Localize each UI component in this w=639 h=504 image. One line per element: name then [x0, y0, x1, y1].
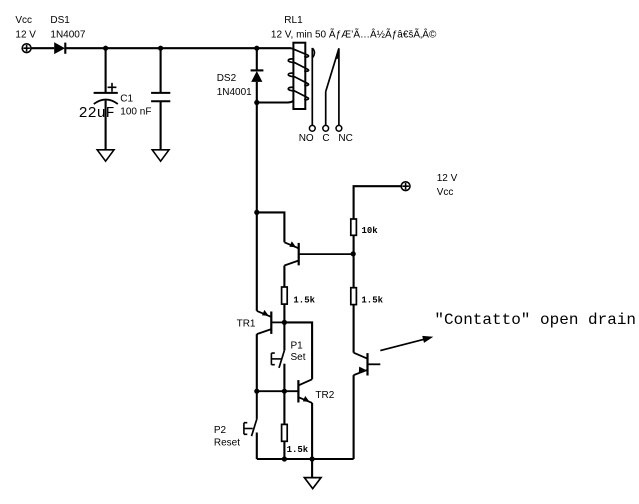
- svg-text:NC: NC: [338, 133, 352, 144]
- svg-text:12 V, min 50 ÃƒÆ’Ã…Â½Ãƒâ€šÃ‚Â©: 12 V, min 50 ÃƒÆ’Ã…Â½Ãƒâ€šÃ‚Â©: [271, 27, 437, 40]
- wire top rail: [65, 47, 291, 49]
- svg-text:Vcc: Vcc: [437, 187, 454, 198]
- svg-text:100 nF: 100 nF: [120, 106, 151, 117]
- wire DS2 lower lead: [256, 82, 258, 103]
- junction DS2 bottom: [254, 100, 259, 105]
- wire Q4 emitter down: [353, 375, 355, 459]
- ground under C1: [97, 150, 114, 161]
- arrow TR1 emitter: [262, 310, 269, 316]
- wire Q3 collector to R4: [283, 266, 285, 288]
- diode DS2: [251, 70, 264, 82]
- arrow TR2 emitter: [303, 396, 310, 402]
- relay contact C line: [325, 92, 327, 126]
- transistor Q3 (upper PNP): [284, 242, 353, 265]
- wire DS2 upper lead: [256, 48, 258, 70]
- svg-text:NO: NO: [299, 133, 314, 144]
- terminal NO: [309, 125, 315, 131]
- svg-text:"Contatto" open drain: "Contatto" open drain: [434, 311, 636, 329]
- wire bottom rail: [257, 458, 354, 460]
- junction emitter branch: [254, 210, 259, 215]
- transistor Q4 (output PNP): [354, 353, 381, 376]
- wire terminal to DS1: [31, 47, 54, 49]
- terminal 12V right: [401, 182, 410, 191]
- junction set-reset node: [254, 389, 259, 394]
- terminal NC: [336, 125, 342, 131]
- wire C1 upper lead: [105, 48, 107, 92]
- wire main left column: [256, 212, 258, 311]
- svg-text:P2: P2: [214, 425, 227, 436]
- diode DS1: [54, 42, 65, 54]
- pushbutton P2: [244, 391, 257, 436]
- wire C2 upper lead: [160, 48, 162, 92]
- annotation arrow: [380, 336, 433, 351]
- terminal Vcc input: [22, 44, 31, 53]
- capacitor C2 100nF: [151, 93, 170, 101]
- capacitor C1: [94, 83, 118, 104]
- terminal C: [323, 125, 329, 131]
- resistor R4 1.5k middle: [282, 287, 288, 304]
- wire base node to TR2 collector: [284, 322, 312, 379]
- relay armature C to NC: [326, 48, 339, 91]
- transistor TR2 (NPN): [257, 379, 312, 403]
- resistor R5 1.5k bottom: [282, 424, 288, 441]
- wire R2 down: [353, 305, 355, 353]
- junction C1 top: [103, 46, 108, 51]
- svg-text:P1: P1: [291, 341, 304, 352]
- svg-text:22uF: 22uF: [79, 105, 115, 122]
- relay contact NC tip: [337, 48, 339, 59]
- junction ground node: [310, 456, 315, 461]
- svg-text:1.5k: 1.5k: [361, 296, 383, 306]
- svg-text:1N4001: 1N4001: [217, 87, 252, 98]
- wire TR2 emitter down: [311, 403, 313, 459]
- wire R5 lead: [283, 391, 285, 424]
- svg-text:1.5k: 1.5k: [293, 296, 315, 306]
- wire C1 lower lead: [105, 101, 107, 150]
- junction TR1 base node: [282, 320, 287, 325]
- relay RL1 coil winding: [288, 48, 308, 99]
- svg-text:Set: Set: [291, 352, 306, 363]
- svg-text:RL1: RL1: [284, 15, 303, 26]
- wire coil return: [257, 100, 294, 102]
- svg-text:Reset: Reset: [214, 438, 240, 449]
- svg-text:1.5k: 1.5k: [287, 445, 309, 455]
- svg-text:TR1: TR1: [237, 318, 256, 329]
- wire C2 lower lead: [160, 101, 162, 150]
- relay RL1 coil body: [293, 43, 305, 109]
- junction DS2 top: [254, 46, 259, 51]
- junction R5 bottom: [282, 456, 287, 461]
- svg-text:TR2: TR2: [315, 390, 334, 401]
- relay contact NC line: [338, 48, 340, 125]
- svg-text:DS2: DS2: [217, 73, 237, 84]
- resistor R1 10k: [351, 219, 357, 235]
- svg-text:C1: C1: [120, 93, 133, 104]
- svg-text:DS1: DS1: [50, 15, 70, 26]
- resistor R2 1.5k right: [351, 288, 357, 305]
- arrow Q4 emitter: [359, 367, 366, 373]
- wire to Q3 emitter: [257, 212, 285, 242]
- svg-text:1N4007: 1N4007: [50, 29, 85, 40]
- junction divider node: [351, 251, 356, 256]
- relay contact NO line: [311, 48, 313, 125]
- wire R5 to rail: [283, 441, 285, 459]
- svg-text:12 V: 12 V: [437, 173, 458, 184]
- relay contact NO tip arc: [313, 48, 315, 57]
- ground main: [304, 478, 321, 489]
- arrow Q3 emitter: [289, 241, 296, 247]
- ground under C2: [152, 150, 169, 161]
- wire ground stem: [311, 459, 313, 478]
- wire 12V feed: [354, 186, 402, 219]
- wire DS2 node down: [256, 103, 258, 213]
- junction R5 top: [282, 389, 287, 394]
- wire P2 bottom: [256, 433, 258, 460]
- wire R1 to node: [353, 235, 355, 287]
- wire P1 bottom: [283, 364, 285, 392]
- transistor TR1 (PNP): [257, 311, 285, 334]
- junction C2 top: [158, 46, 163, 51]
- svg-text:Vcc: Vcc: [15, 15, 32, 26]
- svg-text:10k: 10k: [362, 226, 379, 236]
- svg-text:12 V: 12 V: [15, 29, 36, 40]
- wire R4 to TR1 base node: [283, 304, 285, 350]
- svg-text:C: C: [322, 133, 329, 144]
- pushbutton P1: [271, 350, 284, 368]
- wire TR1 collector down: [256, 334, 258, 391]
